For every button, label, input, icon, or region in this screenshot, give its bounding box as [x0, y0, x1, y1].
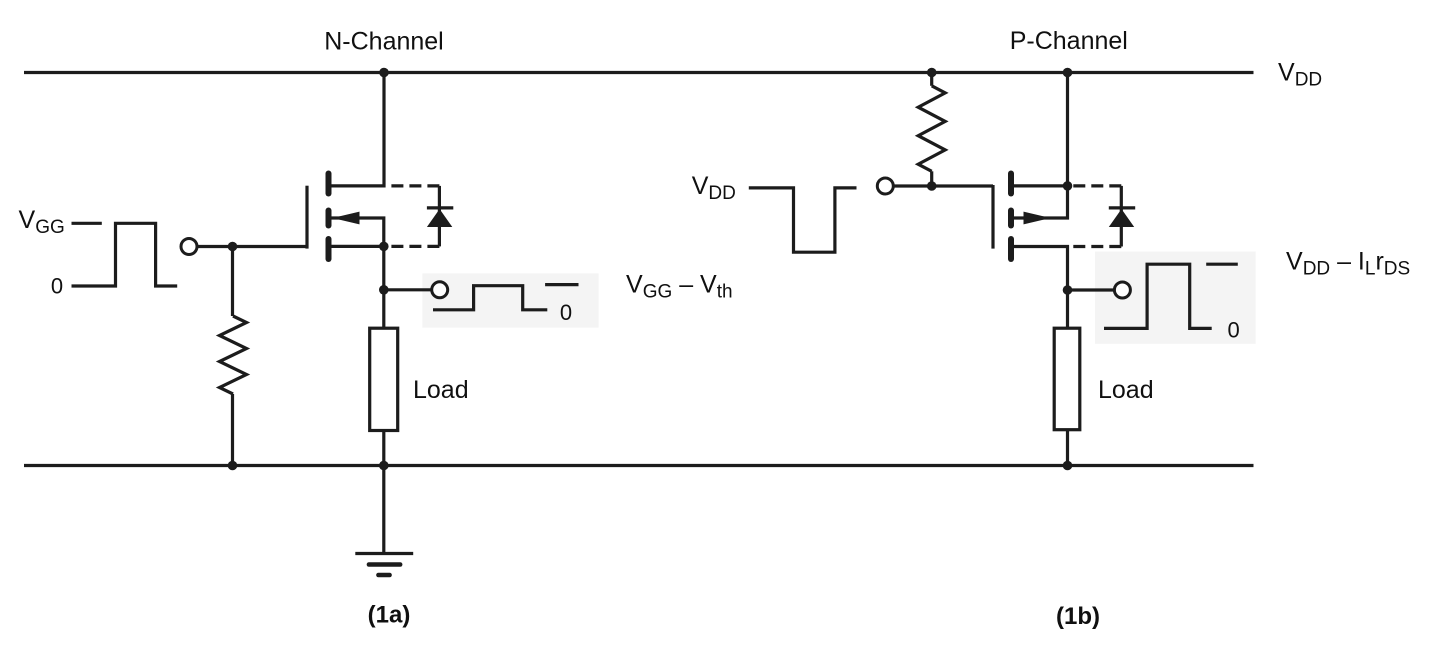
- P output terminal circle: [1114, 282, 1130, 298]
- body diode D1 cathode bar: [427, 206, 453, 209]
- load resistor P: [1054, 328, 1080, 430]
- svg-text:VGG – Vth: VGG – Vth: [626, 270, 733, 302]
- junction: Q2 source/body node: [1063, 181, 1073, 191]
- wire: output node to load: [382, 290, 385, 328]
- N output level dash (VGG-Vth): [545, 283, 578, 286]
- svg-text:Load: Load: [1098, 376, 1154, 404]
- wire: junction down to R1: [231, 247, 234, 317]
- wire: source down to output node: [382, 246, 385, 289]
- body diode D2 cathode bar: [1109, 206, 1135, 209]
- Q1 channel bar drain: [326, 174, 332, 194]
- wire: Q2 drain down to output node: [1014, 247, 1068, 291]
- wire: N output node to output terminal: [384, 288, 432, 291]
- VGG level dash: [72, 222, 102, 225]
- ground bottom rail: [24, 464, 1254, 467]
- svg-text:0: 0: [560, 300, 572, 325]
- body diode D1 vertical wire: [438, 186, 441, 247]
- junction: P load at bottom rail: [1063, 461, 1073, 471]
- junction: Q1 drain at top rail: [379, 68, 389, 78]
- wire: P load to bottom rail: [1066, 430, 1069, 466]
- dashed link: Q1 source to body diode D1: [390, 245, 440, 248]
- resistor R2 gate pull-up: [918, 86, 945, 172]
- svg-text:P-Channel: P-Channel: [1010, 27, 1128, 55]
- svg-text:Load: Load: [413, 376, 469, 404]
- wire: R1 to bottom rail: [231, 394, 234, 466]
- wire: Q2 body tie: [1014, 186, 1068, 218]
- junction: Q1 source node: [379, 242, 389, 252]
- wire: load to bottom rail: [382, 431, 385, 466]
- resistor R1 gate pull-down: [220, 316, 247, 394]
- wire: P input terminal to gate: [893, 184, 993, 187]
- N output terminal circle: [432, 282, 448, 298]
- Q2 channel bar drain: [1008, 239, 1014, 259]
- body diode D1 triangle: [427, 209, 452, 227]
- wire: Q1 body to source tie: [332, 218, 384, 246]
- body diode D2 triangle: [1109, 209, 1134, 227]
- transistor Q1 N-channel MOSFET gate bar: [305, 186, 308, 249]
- wire: bottom rail to ground: [382, 466, 385, 554]
- node VDD top rail: [24, 71, 1254, 74]
- Q1 channel bar body: [326, 211, 332, 226]
- shaded box N output waveform: [422, 273, 598, 327]
- junction: load at bottom rail: [379, 461, 389, 471]
- P output level dash (VDD-ILrDS): [1206, 263, 1238, 266]
- Q2 channel bar body: [1008, 211, 1014, 226]
- junction: N output node: [379, 285, 389, 295]
- dashed link: Q1 drain to body diode D1: [390, 184, 440, 187]
- P gate input terminal circle: [877, 178, 893, 194]
- dashed link: Q2 source to body diode D2: [1073, 184, 1121, 187]
- junction: P output node: [1063, 285, 1073, 295]
- junction: R2 at top rail: [927, 68, 937, 78]
- P gate input pulse waveform (inverted): [749, 188, 857, 252]
- wire: Q2 source to top rail: [1066, 73, 1069, 186]
- wire: Q2 source horizontal: [1014, 184, 1068, 187]
- junction: N gate / R1: [228, 242, 238, 252]
- svg-text:0: 0: [1227, 318, 1239, 343]
- junction: Q2 source at top rail: [1063, 68, 1073, 78]
- wire: R2 to gate junction: [930, 171, 933, 186]
- wire: Q1 drain to top rail: [332, 73, 385, 186]
- svg-text:N-Channel: N-Channel: [324, 28, 444, 56]
- svg-text:(1b): (1b): [1056, 603, 1100, 630]
- dashed link: Q2 drain to body diode D2: [1073, 245, 1121, 248]
- svg-text:0: 0: [51, 274, 63, 299]
- wire: N input terminal to gate: [197, 245, 307, 248]
- N gate input pulse waveform: [72, 223, 178, 286]
- junction: P gate / R2: [927, 181, 937, 191]
- wire: P output node to output terminal: [1068, 288, 1115, 291]
- N gate input terminal circle: [181, 239, 197, 255]
- wire: Q1 source: [332, 245, 384, 248]
- N output pulse waveform: [433, 286, 547, 310]
- wire: P output node to load: [1066, 290, 1069, 328]
- junction: R1 at bottom rail: [228, 461, 238, 471]
- shaded box P output waveform: [1095, 252, 1256, 344]
- ground: [355, 554, 413, 576]
- Q2 channel bar source: [1008, 174, 1014, 194]
- Q1 body arrow (points into channel): [333, 212, 360, 225]
- wire: top rail to R2: [930, 73, 933, 86]
- Q1 channel bar source: [326, 239, 332, 259]
- body diode D2 vertical wire: [1120, 186, 1123, 247]
- load resistor N: [370, 328, 398, 430]
- transistor Q2 P-channel MOSFET gate bar: [991, 185, 994, 249]
- svg-text:(1a): (1a): [368, 602, 411, 629]
- P output pulse waveform: [1104, 264, 1212, 328]
- Q2 body arrow (points out of channel): [1024, 212, 1051, 225]
